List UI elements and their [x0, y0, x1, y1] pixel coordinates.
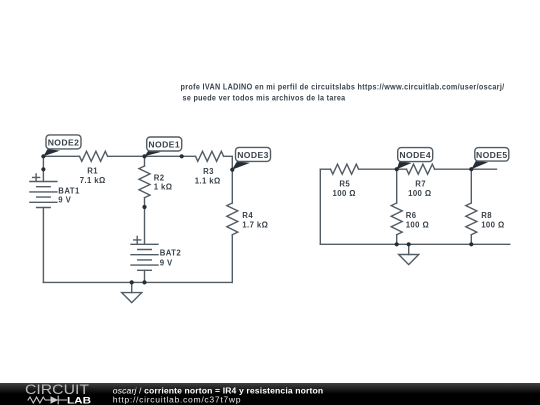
wire left branch upper (NODE2 to BAT1)	[42, 156, 44, 181]
junction dot BAT2 bottom	[142, 280, 146, 284]
svg-text:R2: R2	[154, 173, 165, 182]
resistor R7	[407, 164, 435, 174]
svg-text:100 Ω: 100 Ω	[332, 189, 355, 198]
junction dot above BAT1	[41, 167, 45, 171]
svg-text:100 Ω: 100 Ω	[406, 221, 429, 230]
svg-text:1.7 kΩ: 1.7 kΩ	[242, 221, 268, 230]
resistor R8	[466, 203, 477, 235]
svg-text:BAT1: BAT1	[58, 187, 80, 196]
svg-text:NODE5: NODE5	[476, 150, 508, 160]
node NODE2 junction dot	[41, 154, 45, 158]
svg-text:100 Ω: 100 Ω	[481, 221, 504, 230]
svg-text:se puede ver todos mis archivo: se puede ver todos mis archivos de la ta…	[183, 92, 346, 102]
svg-text:R1: R1	[87, 167, 98, 176]
junction dot ground right	[407, 242, 411, 246]
node label NODE3	[232, 147, 271, 169]
footer bar	[0, 383, 540, 405]
wire R2 top stub	[144, 156, 146, 166]
CircuitLab logo diode triangle	[51, 396, 59, 404]
wire R5 to NODE4	[359, 168, 407, 170]
wire R2 to BAT2	[144, 198, 146, 245]
resistor R2	[139, 166, 150, 198]
wire bottom bus left circuit	[43, 281, 232, 283]
CircuitLab logo resistor-diode line	[28, 396, 67, 404]
junction dot R6 bottom	[395, 242, 399, 246]
node label NODE1	[145, 137, 182, 156]
wire R8 top stub	[470, 169, 472, 203]
resistor R4	[227, 203, 238, 235]
wire right circuit left branch	[319, 169, 321, 244]
svg-text:profe IVAN LADINO en mi perfil: profe IVAN LADINO en mi perfil de circui…	[181, 82, 505, 92]
resistor R5	[331, 164, 359, 174]
node NODE5 junction dot	[469, 167, 473, 171]
node label NODE4	[397, 148, 433, 170]
node NODE4 junction dot	[395, 167, 399, 171]
svg-text:NODE1: NODE1	[148, 139, 180, 149]
wire top left (NODE2 to R1)	[43, 155, 79, 157]
wire right branch lower	[231, 235, 233, 283]
svg-text:9 V: 9 V	[160, 258, 173, 267]
resistor R6	[391, 203, 402, 235]
ground right circuit	[399, 244, 419, 264]
battery BAT2	[131, 236, 158, 270]
junction dot R8 bottom	[469, 242, 473, 246]
wire top right corner into right branch	[224, 156, 233, 203]
svg-text:1.1 kΩ: 1.1 kΩ	[195, 177, 221, 186]
node label NODE2	[43, 135, 81, 156]
svg-text:BAT2: BAT2	[160, 248, 182, 257]
battery BAT1	[30, 174, 57, 208]
svg-text:R5: R5	[339, 179, 350, 188]
svg-text:R6: R6	[406, 211, 417, 220]
svg-text:R3: R3	[203, 167, 214, 176]
svg-text:7.1 kΩ: 7.1 kΩ	[80, 176, 106, 185]
junction dot mid top wire	[180, 154, 184, 158]
svg-text:http://circuitlab.com/c37t7wp: http://circuitlab.com/c37t7wp	[113, 395, 241, 405]
svg-text:100 Ω: 100 Ω	[408, 189, 431, 198]
svg-text:R8: R8	[481, 211, 492, 220]
svg-text:NODE3: NODE3	[237, 150, 269, 160]
wire R8 bottom stub	[470, 235, 472, 245]
junction dot R2 bottom	[142, 205, 146, 209]
wire bottom bus right circuit	[320, 243, 510, 245]
wire right circuit top left	[320, 168, 330, 170]
node NODE3 junction dot	[230, 168, 234, 172]
resistor R3	[196, 151, 224, 161]
node NODE1 junction dot	[142, 154, 146, 158]
svg-text:LAB: LAB	[67, 396, 91, 405]
wire R6 bottom stub	[396, 235, 398, 245]
wire R6 top stub	[396, 169, 398, 203]
svg-text:NODE2: NODE2	[48, 137, 80, 147]
svg-text:R7: R7	[415, 179, 426, 188]
svg-text:NODE4: NODE4	[399, 150, 431, 160]
svg-text:9 V: 9 V	[58, 196, 71, 205]
svg-text:R4: R4	[242, 211, 253, 220]
node label NODE5	[471, 148, 509, 170]
wire R7 to top right end	[435, 168, 497, 170]
ground left circuit	[122, 282, 142, 302]
junction dot ground left	[130, 280, 134, 284]
wire left branch lower (BAT1 to bottom)	[42, 208, 44, 283]
svg-text:1 kΩ: 1 kΩ	[154, 183, 173, 192]
resistor R1	[80, 151, 108, 161]
wire top middle (R1 to R3)	[108, 155, 196, 157]
wire BAT2 bottom stub	[144, 270, 146, 282]
